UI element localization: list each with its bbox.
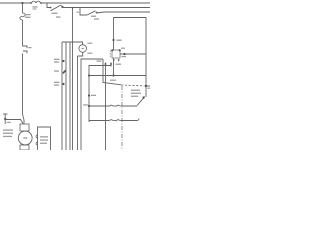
capacitor label (7, 122, 11, 123)
lid switch text block (131, 90, 141, 97)
motor label block (3, 129, 13, 137)
relay K1 box (111, 49, 121, 62)
circuit breaker CB1 (S-curve) (20, 13, 25, 20)
relay bottom stub to bus (113, 58, 115, 76)
breaker label (25, 14, 31, 18)
switch S1 feed stub (47, 3, 50, 8)
box corner stub to edge (146, 85, 150, 87)
relay mech link dashed (109, 51, 111, 59)
relay terminal label (121, 48, 125, 49)
node relay stub junction (112, 74, 114, 76)
relay output wire (120, 53, 146, 55)
node bundle dot1 (62, 60, 64, 62)
protector box (36, 127, 51, 150)
wire left rail middle (22, 20, 24, 46)
rail node label (117, 40, 122, 41)
bundle dot1 label (54, 59, 60, 63)
wire left rail drop (22, 3, 24, 13)
lid switch S3 blade (137, 96, 145, 105)
pilot lamp DS1 (62, 8, 86, 57)
node branch dot1 (88, 94, 90, 96)
wire bundle w3 (69, 42, 71, 150)
wire branch B1 (corner right) (81, 59, 103, 150)
wire motor top link (5, 120, 23, 124)
protector text (40, 136, 48, 144)
relay coil label (116, 64, 122, 65)
node bundle dot2 (62, 83, 64, 85)
relay bottom terminal arrow A (104, 62, 106, 150)
switch S2 blade (87, 11, 97, 15)
wire bundle w5 (lamp return) (77, 56, 79, 150)
wire switch S2 feed (80, 8, 87, 16)
node bus left junction (88, 74, 90, 76)
connector P1 on left rail (23, 46, 28, 53)
switch S1 label (52, 13, 61, 18)
relay bottom terminal arrow B (110, 62, 112, 67)
node label right (147, 88, 150, 89)
bundle dot2 label (54, 82, 60, 86)
branch dot1 label (91, 95, 96, 96)
enclosure dash-dot vertical (121, 86, 123, 150)
switch S2 labels (77, 12, 100, 20)
lamp inner label (81, 48, 84, 49)
node on relay output (123, 53, 125, 55)
motor inner label (23, 137, 27, 138)
wire bundle w4 (72, 42, 74, 150)
node lamp feed junction (72, 7, 74, 9)
wire branch B2 (corner right) (89, 66, 111, 123)
fuse value label (33, 6, 38, 9)
wire line L2 (63, 7, 150, 9)
wire rail x103 with box corner (103, 59, 121, 85)
wire top supply line L1 (0, 2, 31, 4)
node branch dot2 (88, 105, 90, 107)
node motor line junction (4, 118, 6, 120)
wire inner box top L4 (114, 18, 147, 98)
wire harness line y106 (89, 105, 137, 106)
fuse F1 on top line (30, 1, 42, 4)
wire line L3 (97, 12, 151, 13)
blob label (54, 70, 59, 71)
capacitor C1 stub (3, 114, 8, 124)
box top label (110, 80, 116, 81)
branch dot2 label (83, 104, 88, 105)
switch S1 blade (50, 5, 64, 11)
wire harness line y121 (89, 119, 139, 122)
lamp labels (87, 43, 92, 54)
wire left rail lower (23, 54, 25, 125)
node top line tap (21, 2, 23, 4)
branch B1 label (97, 60, 102, 61)
node box corner (145, 85, 147, 87)
wire bundle w1 (61, 42, 63, 150)
wire bundle w2 (65, 42, 67, 150)
motor M1 (18, 124, 32, 150)
node on rail x114 (112, 39, 114, 41)
wire bus line y75.5 (89, 75, 146, 77)
relay output label (122, 56, 127, 57)
connector blob on bundle (62, 70, 66, 74)
connector label (28, 47, 31, 48)
